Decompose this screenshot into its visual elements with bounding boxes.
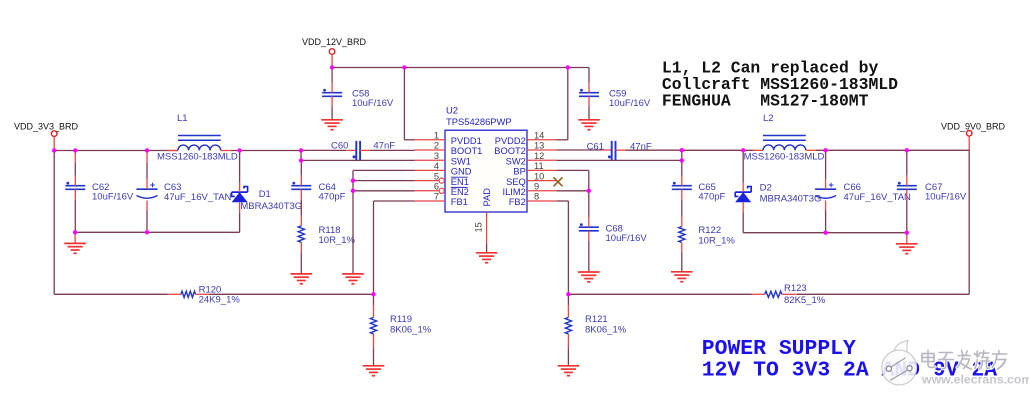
- wire left bottom rail: [75, 231, 240, 233]
- label C60: [331, 141, 395, 152]
- wire 3V3 left vertical: [53, 151, 55, 295]
- U2 right pin numbers: [534, 131, 544, 202]
- resistor R118: [298, 216, 304, 274]
- svg-text:MSS1260-183MLD: MSS1260-183MLD: [157, 152, 238, 163]
- capacitor C65: [672, 176, 692, 217]
- label U2 part number TPS54286PWP: [446, 116, 512, 127]
- svg-text:1: 1: [434, 131, 439, 141]
- svg-text:VDD_9V0_BRD: VDD_9V0_BRD: [941, 121, 1006, 131]
- svg-text:24K9_1%: 24K9_1%: [199, 294, 241, 305]
- svg-text:POWER SUPPLY: POWER SUPPLY: [702, 337, 856, 361]
- U2 left pins 1-7: [415, 140, 446, 201]
- power port VDD_12V_BRD net label: [302, 37, 367, 47]
- svg-text:SEQ: SEQ: [506, 177, 526, 187]
- svg-text:EN1: EN1: [451, 177, 469, 187]
- ground under R119: [363, 366, 385, 376]
- wire 12V top rail: [332, 67, 589, 69]
- svg-text:L1: L1: [177, 113, 188, 124]
- label R123 value: [784, 283, 826, 306]
- svg-text:8K06_1%: 8K06_1%: [390, 325, 432, 336]
- inductor L2: [763, 136, 806, 151]
- svg-text:12: 12: [534, 151, 544, 161]
- wire EN2 pin6 tie: [353, 190, 415, 192]
- capacitor C67: [897, 150, 917, 232]
- svg-text:U2: U2: [446, 104, 458, 115]
- svg-text:C60: C60: [331, 141, 348, 152]
- wire 12V rail down to C59: [588, 68, 590, 83]
- svg-text:47uF_16V_TAN: 47uF_16V_TAN: [164, 192, 232, 203]
- svg-text:www.elecrans.com: www.elecrans.com: [921, 373, 1029, 387]
- svg-text:10R_1%: 10R_1%: [698, 236, 735, 247]
- U2 right pin names: [494, 136, 526, 207]
- resistor R119: [370, 294, 376, 366]
- svg-text:TPS54286PWP: TPS54286PWP: [446, 116, 512, 127]
- wire bottom row left: [54, 293, 373, 295]
- svg-text:R123: R123: [784, 283, 807, 294]
- diode D2 MBRA340T3G: [735, 150, 751, 232]
- U2 pin 15 number: [474, 222, 484, 232]
- label R119 value: [390, 314, 432, 336]
- svg-text:C61: C61: [587, 142, 604, 153]
- capacitor C64: [291, 160, 311, 215]
- label R122 value: [698, 225, 735, 247]
- watermark logo bubble: [882, 341, 917, 385]
- text title POWER SUPPLY: [702, 337, 997, 382]
- svg-text:PVDD1: PVDD1: [451, 136, 482, 146]
- svg-text:8K06_1%: 8K06_1%: [585, 325, 627, 336]
- svg-text:3: 3: [434, 151, 439, 161]
- wire 9V0 right vertical: [968, 150, 970, 294]
- svg-text:10: 10: [534, 171, 544, 181]
- wire FB1 pin7 down: [374, 201, 415, 294]
- ground under R118: [291, 274, 313, 284]
- ground under right rail: [896, 233, 918, 254]
- power port VDD_3V3_BRD pin circle: [51, 131, 57, 151]
- label C68 value: [606, 223, 648, 244]
- svg-text:SW2: SW2: [506, 156, 526, 166]
- U2 left pin names: [451, 136, 483, 207]
- resistor R121: [565, 294, 571, 366]
- wire SW2 rail to L2: [682, 149, 763, 151]
- ground under C58: [321, 120, 343, 130]
- svg-text:GND: GND: [451, 167, 472, 177]
- power port VDD_9V0_BRD pin circle: [966, 131, 972, 151]
- label L1: [177, 113, 188, 124]
- wire ILIM2 pin9: [557, 190, 589, 192]
- ground under C68: [578, 272, 600, 282]
- svg-text:ILIM2: ILIM2: [503, 187, 526, 197]
- wire 12V rail to PVDD2 pin14: [557, 68, 568, 140]
- capacitor C62: [65, 151, 85, 233]
- label D2: [760, 183, 772, 194]
- ground under R122: [671, 272, 693, 282]
- wire SW2 pin12: [557, 159, 682, 161]
- wire BOOT2 to C61: [557, 149, 612, 151]
- text note L1 L2 replacement: [662, 59, 898, 111]
- svg-text:PVDD2: PVDD2: [495, 136, 526, 146]
- capacitor C63 polarized: [137, 151, 158, 233]
- svg-text:PAD: PAD: [482, 188, 492, 207]
- svg-text:VDD_12V_BRD: VDD_12V_BRD: [302, 37, 367, 47]
- wire L2 to 9V0: [806, 149, 969, 151]
- label D1 value MBRA340T3G: [240, 201, 302, 212]
- svg-text:10R_1%: 10R_1%: [319, 235, 356, 246]
- svg-text:FB1: FB1: [451, 197, 468, 207]
- svg-text:470pF: 470pF: [698, 192, 725, 203]
- wire 12V rail to PVDD1 pin1: [404, 68, 414, 140]
- svg-text:14: 14: [534, 131, 544, 141]
- svg-text:47uF_16V_TAN: 47uF_16V_TAN: [844, 192, 912, 203]
- capacitor C66 polarized: [815, 150, 836, 232]
- wire C61 to SW2 node: [616, 149, 682, 151]
- svg-text:13: 13: [534, 141, 544, 151]
- svg-text:R122: R122: [698, 225, 721, 236]
- svg-text:EN2: EN2: [451, 187, 469, 197]
- svg-text:10uF/16V: 10uF/16V: [925, 192, 967, 203]
- label C63 value: [164, 182, 232, 203]
- label C61: [587, 142, 652, 153]
- ground under R121: [558, 366, 580, 376]
- wire 3V3 rail: [54, 150, 301, 152]
- label C58 value: [352, 89, 394, 110]
- wire SW1 to pin3: [301, 159, 415, 161]
- label D2 value MBRA340T3G: [760, 194, 822, 205]
- label L1 value MSS1260-183MLD: [157, 152, 238, 163]
- U2 pin6 EN2 bubble: [439, 188, 444, 193]
- diode D1 MBRA340T3G: [232, 151, 248, 233]
- svg-text:SW1: SW1: [451, 156, 471, 166]
- power port VDD_9V0_BRD net label: [941, 121, 1006, 131]
- label C64 value: [319, 182, 346, 203]
- svg-text:15: 15: [474, 222, 484, 232]
- svg-text:2: 2: [434, 141, 439, 151]
- svg-text:7: 7: [434, 192, 439, 202]
- label C59 value: [609, 89, 651, 110]
- svg-text:8: 8: [534, 192, 539, 202]
- svg-text:D2: D2: [760, 183, 772, 194]
- ground under C62 rail: [64, 232, 86, 253]
- label R118 value: [319, 225, 356, 246]
- svg-text:10uF/16V: 10uF/16V: [352, 98, 394, 109]
- U2 right pins 8-14: [527, 140, 557, 201]
- wire FB2 pin8 down: [557, 201, 569, 294]
- U2 EN1 EN2 overlines: [451, 177, 468, 187]
- svg-text:L2: L2: [763, 113, 774, 124]
- no-connect X on SEQ pin10: [554, 177, 563, 186]
- svg-text:47nF: 47nF: [630, 142, 652, 153]
- svg-text:FENGHUA MS127-180MT: FENGHUA MS127-180MT: [662, 92, 869, 111]
- svg-text:6: 6: [434, 182, 439, 192]
- power port VDD_3V3_BRD net label: [14, 121, 79, 131]
- svg-text:FB2: FB2: [509, 197, 526, 207]
- wire GND pin4 to ground: [353, 170, 415, 274]
- capacitor C61: [608, 141, 616, 160]
- svg-text:11: 11: [534, 161, 544, 171]
- svg-text:82K5_1%: 82K5_1%: [784, 295, 826, 306]
- op-amp U2 body TPS54286PWP: [445, 130, 527, 212]
- wire C60 to BOOT1 pin2: [360, 149, 414, 151]
- svg-text:VDD_3V3_BRD: VDD_3V3_BRD: [14, 121, 79, 131]
- resistor R123: [752, 291, 797, 297]
- wire SW1 node vertical: [300, 151, 302, 161]
- label U2 designator: [446, 104, 458, 115]
- label C67 value: [925, 182, 967, 203]
- capacitor C59: [579, 83, 599, 120]
- U2 pin5 EN1 bubble: [439, 178, 444, 183]
- label L2 value MSS1260-183MLD: [744, 151, 825, 162]
- wire right bottom rail: [743, 232, 907, 234]
- svg-text:10uF/16V: 10uF/16V: [609, 98, 651, 109]
- resistor R122: [679, 217, 685, 272]
- label R121 value: [585, 314, 627, 336]
- ground under U2 pad: [476, 253, 498, 263]
- label L2: [763, 113, 774, 124]
- capacitor C58: [322, 68, 342, 120]
- ground under EN tie: [342, 274, 364, 284]
- watermark url text: [921, 373, 1029, 387]
- svg-text:MBRA340T3G: MBRA340T3G: [760, 194, 822, 205]
- wire EN1 pin5 tie: [353, 180, 415, 182]
- wire SW2 node vertical: [681, 150, 683, 176]
- label D1: [259, 189, 271, 200]
- svg-text:9: 9: [534, 182, 539, 192]
- inductor L1: [178, 136, 221, 151]
- svg-text:BOOT2: BOOT2: [494, 146, 526, 156]
- label C62 value: [92, 182, 134, 203]
- svg-text:MBRA340T3G: MBRA340T3G: [240, 201, 302, 212]
- svg-text:470pF: 470pF: [319, 192, 346, 203]
- U2 left pin numbers: [434, 131, 439, 202]
- svg-text:MSS1260-183MLD: MSS1260-183MLD: [744, 151, 825, 162]
- power port VDD_12V_BRD pin circle: [329, 49, 335, 68]
- wire BP pin11: [557, 170, 589, 190]
- label R120 value: [199, 284, 241, 305]
- resistor R120: [168, 291, 210, 297]
- watermark chinese characters: [922, 350, 1007, 369]
- svg-text:R121: R121: [585, 314, 608, 325]
- svg-text:10uF/16V: 10uF/16V: [606, 233, 648, 244]
- label C66 value: [844, 182, 912, 203]
- capacitor C68: [579, 191, 599, 272]
- ground under C59: [578, 120, 600, 130]
- svg-text:D1: D1: [259, 189, 271, 200]
- svg-text:10uF/16V: 10uF/16V: [92, 192, 134, 203]
- capacitor C60: [353, 141, 361, 160]
- wire BOOT1 row to C60: [301, 149, 356, 151]
- svg-text:4: 4: [434, 161, 439, 171]
- svg-text:R119: R119: [390, 314, 412, 325]
- wire bottom row right: [568, 293, 969, 295]
- label C65 value: [698, 182, 725, 203]
- svg-text:BP: BP: [513, 167, 525, 177]
- U2 PAD pin name: [482, 188, 492, 207]
- svg-text:BOOT1: BOOT1: [451, 146, 483, 156]
- U2 pin 15 PAD: [486, 212, 488, 253]
- svg-text:5: 5: [434, 171, 439, 181]
